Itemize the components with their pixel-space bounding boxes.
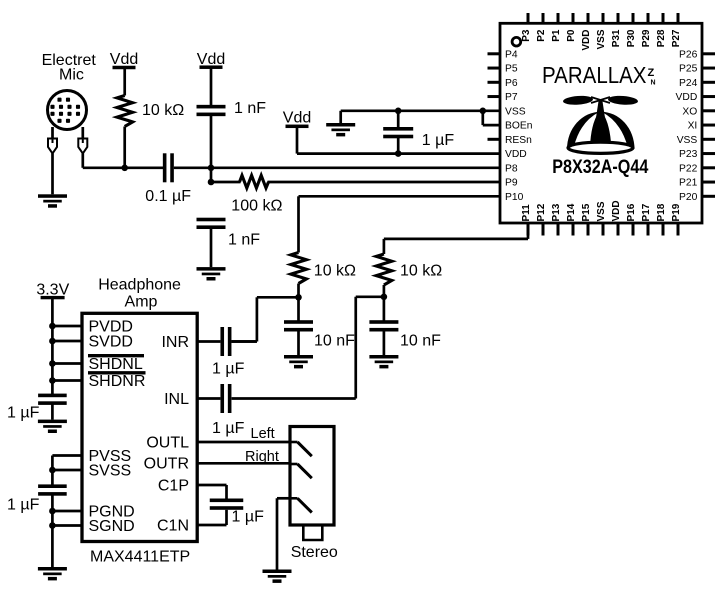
- svg-text:P2: P2: [536, 29, 547, 42]
- svg-text:P27: P27: [671, 29, 682, 47]
- svg-text:P8X32A-Q44: P8X32A-Q44: [552, 157, 648, 178]
- svg-text:OUTL: OUTL: [146, 435, 189, 452]
- svg-text:P31: P31: [611, 29, 622, 47]
- svg-text:10 kΩ: 10 kΩ: [400, 262, 442, 279]
- svg-text:Mic: Mic: [59, 66, 84, 83]
- svg-text:P13: P13: [551, 203, 562, 221]
- svg-text:P12: P12: [536, 203, 547, 221]
- svg-text:10 kΩ: 10 kΩ: [142, 102, 184, 119]
- svg-text:VDD: VDD: [611, 200, 622, 221]
- svg-text:P30: P30: [626, 29, 637, 47]
- svg-text:VSS: VSS: [505, 106, 526, 117]
- svg-text:1 µF: 1 µF: [232, 509, 265, 526]
- svg-text:1 nF: 1 nF: [228, 232, 260, 249]
- svg-text:P19: P19: [671, 203, 682, 221]
- svg-text:P20: P20: [679, 192, 698, 203]
- svg-text:VDD: VDD: [581, 30, 592, 51]
- svg-text:C1P: C1P: [158, 478, 189, 495]
- svg-text:0.1 µF: 0.1 µF: [145, 188, 191, 205]
- svg-text:Vdd: Vdd: [197, 51, 225, 68]
- svg-text:Stereo: Stereo: [291, 544, 338, 561]
- svg-text:P15: P15: [581, 203, 592, 221]
- svg-text:P4: P4: [505, 49, 518, 60]
- svg-text:P22: P22: [679, 163, 698, 174]
- svg-text:P14: P14: [566, 203, 577, 221]
- svg-text:1 µF: 1 µF: [7, 405, 40, 422]
- svg-text:VSS: VSS: [596, 201, 607, 221]
- svg-text:OUTR: OUTR: [144, 456, 189, 473]
- svg-text:SGND: SGND: [89, 518, 135, 535]
- svg-text:RESn: RESn: [505, 135, 532, 146]
- svg-text:BOEn: BOEn: [505, 121, 533, 132]
- svg-text:N: N: [651, 80, 656, 87]
- svg-text:SHDNL: SHDNL: [89, 356, 143, 373]
- svg-text:P21: P21: [679, 178, 698, 189]
- svg-text:VDD: VDD: [676, 92, 698, 103]
- svg-text:P17: P17: [641, 203, 652, 221]
- svg-text:P5: P5: [505, 64, 518, 75]
- svg-text:VSS: VSS: [596, 29, 607, 49]
- svg-text:P3: P3: [521, 29, 532, 42]
- svg-text:P29: P29: [641, 29, 652, 47]
- svg-text:C1N: C1N: [157, 518, 189, 535]
- svg-text:P16: P16: [626, 203, 637, 221]
- svg-text:P9: P9: [505, 178, 518, 189]
- svg-text:INR: INR: [161, 334, 189, 351]
- svg-text:P10: P10: [505, 192, 524, 203]
- svg-text:VSS: VSS: [677, 135, 698, 146]
- svg-text:Amp: Amp: [125, 294, 158, 311]
- svg-text:P1: P1: [551, 29, 562, 42]
- svg-text:P0: P0: [566, 29, 577, 42]
- svg-text:SHDNR: SHDNR: [89, 373, 146, 390]
- svg-text:10 nF: 10 nF: [314, 333, 355, 350]
- svg-text:3.3V: 3.3V: [36, 282, 69, 299]
- svg-text:SVDD: SVDD: [89, 334, 133, 351]
- svg-text:VDD: VDD: [505, 149, 527, 160]
- svg-text:Right: Right: [245, 449, 279, 465]
- svg-text:P18: P18: [656, 203, 667, 221]
- svg-text:MAX4411ETP: MAX4411ETP: [90, 549, 190, 566]
- svg-text:INL: INL: [164, 391, 189, 408]
- svg-text:P6: P6: [505, 78, 518, 89]
- svg-text:P11: P11: [521, 204, 532, 222]
- svg-text:P24: P24: [679, 78, 698, 89]
- svg-text:Headphone: Headphone: [98, 277, 181, 294]
- svg-text:1 µF: 1 µF: [422, 132, 455, 149]
- svg-text:Vdd: Vdd: [110, 51, 138, 68]
- svg-text:XO: XO: [682, 106, 697, 117]
- svg-text:PARALLAX: PARALLAX: [542, 62, 647, 88]
- svg-text:P8: P8: [505, 163, 518, 174]
- svg-text:P23: P23: [679, 149, 698, 160]
- svg-text:SVSS: SVSS: [89, 463, 132, 480]
- svg-text:Left: Left: [251, 426, 275, 442]
- svg-text:P28: P28: [656, 29, 667, 47]
- svg-text:100 kΩ: 100 kΩ: [231, 198, 282, 215]
- svg-text:P25: P25: [679, 64, 698, 75]
- svg-text:Z: Z: [648, 67, 655, 79]
- svg-text:1 nF: 1 nF: [234, 100, 266, 117]
- svg-text:1 µF: 1 µF: [212, 420, 245, 437]
- svg-text:P26: P26: [679, 49, 698, 60]
- svg-text:P7: P7: [505, 92, 518, 103]
- svg-text:1 µF: 1 µF: [212, 361, 245, 378]
- svg-text:XI: XI: [688, 121, 698, 132]
- svg-text:10 kΩ: 10 kΩ: [314, 262, 356, 279]
- svg-text:Vdd: Vdd: [283, 110, 311, 127]
- svg-text:10 nF: 10 nF: [400, 333, 441, 350]
- svg-text:1 µF: 1 µF: [7, 497, 40, 514]
